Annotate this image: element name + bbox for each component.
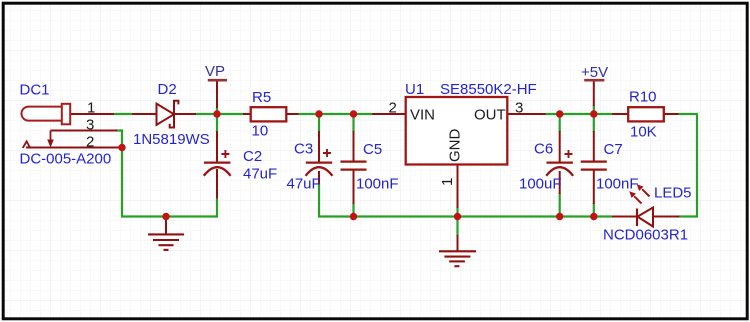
node VP <box>213 110 220 117</box>
LED5 emission arrows <box>629 184 649 203</box>
resistor R10 <box>628 107 664 121</box>
svg-text:D2: D2 <box>158 81 177 98</box>
svg-text:C6: C6 <box>534 141 553 158</box>
LED5 cathode pin <box>612 216 637 218</box>
+5V stem <box>593 81 595 107</box>
wire VP node green <box>216 107 218 132</box>
wire C7 top / +5V node <box>593 105 595 132</box>
node C3 top <box>315 110 322 117</box>
connector DC1 barrel <box>22 107 64 121</box>
svg-text:C5: C5 <box>363 141 382 158</box>
capacitor C6 plates <box>546 163 573 176</box>
LED5 cathode bar <box>636 209 638 227</box>
C7 pins <box>593 131 595 162</box>
wire C5 top <box>352 114 354 132</box>
capacitor C3 plus <box>323 149 331 157</box>
node C6 bottom <box>556 213 563 220</box>
resistor R5 <box>251 107 287 121</box>
wire right vertical <box>679 114 698 217</box>
wire C6 bottom <box>559 193 561 217</box>
ground1 stub <box>165 219 167 234</box>
node DC1 pins 2-3 <box>118 144 125 151</box>
ground2 stub <box>457 235 459 251</box>
capacitor C6 plus <box>565 150 573 158</box>
capacitor C2 plus <box>221 150 229 158</box>
U1 pin 3 <box>507 113 546 115</box>
U1 pin 1 (GND) <box>457 164 459 208</box>
svg-text:47uF: 47uF <box>243 166 277 183</box>
svg-text:VP: VP <box>205 63 225 80</box>
DC1 pin 1 <box>70 113 114 115</box>
wire U1 OUT to R10 (through C6, +5V nodes) <box>545 113 613 115</box>
connector DC1 pin3 arrow <box>47 131 54 148</box>
VP stem <box>216 81 218 109</box>
connector DC1 pin2 caret <box>23 141 30 148</box>
wire C6 top <box>559 114 561 132</box>
svg-text:DC-005-A200: DC-005-A200 <box>20 151 112 168</box>
svg-text:10: 10 <box>252 123 269 140</box>
wire DC pin3 corner <box>116 131 122 146</box>
LED5 triangle <box>638 208 654 227</box>
capacitor C5 plates <box>341 162 367 170</box>
node +5V <box>590 110 597 117</box>
DC1 pin 2 line <box>26 147 119 149</box>
svg-text:100uF: 100uF <box>519 176 562 193</box>
svg-text:LED5: LED5 <box>654 185 692 202</box>
wire D2 cathode to VP node to R5 <box>195 113 244 115</box>
svg-text:C7: C7 <box>604 141 623 158</box>
svg-text:R10: R10 <box>629 89 657 106</box>
wire DC1 pin1 to D2 <box>113 113 133 115</box>
C6 pins <box>559 131 561 162</box>
wire U1 GND to rail <box>456 207 458 214</box>
svg-text:47uF: 47uF <box>287 176 321 193</box>
ground symbol 1 <box>148 234 184 250</box>
capacitor C7 plates <box>581 162 607 170</box>
C5 pins <box>353 131 355 162</box>
node C5 bottom <box>350 213 357 220</box>
LED5 anode pin <box>653 216 679 218</box>
node C5 top <box>350 110 357 117</box>
svg-text:2: 2 <box>389 100 397 117</box>
net +5V bar <box>584 79 604 82</box>
svg-text:+5V: +5V <box>581 64 608 81</box>
svg-text:NCD0603R1: NCD0603R1 <box>603 226 688 243</box>
wire C2 bottom up <box>216 198 218 218</box>
wire ground rail left <box>121 215 217 217</box>
svg-text:OUT: OUT <box>474 107 506 124</box>
svg-text:1: 1 <box>439 178 456 186</box>
wire C5 bottom <box>352 203 354 217</box>
capacitor C2 plates <box>204 163 231 176</box>
node ground rail tap <box>162 213 169 220</box>
svg-text:C3: C3 <box>294 141 313 158</box>
svg-text:1: 1 <box>87 99 95 116</box>
wire ground rail right <box>319 215 613 217</box>
svg-text:10K: 10K <box>630 124 657 141</box>
svg-text:GND: GND <box>447 129 464 163</box>
node C6 top <box>556 110 563 117</box>
wire rail to ground2 <box>456 219 458 236</box>
IC U1 body <box>406 97 508 165</box>
svg-text:DC1: DC1 <box>20 81 50 98</box>
R10 pins <box>612 113 629 115</box>
svg-text:SE8550K2-HF: SE8550K2-HF <box>440 81 537 98</box>
wire C3 top <box>318 114 320 132</box>
C3 pins <box>318 131 320 162</box>
svg-text:3: 3 <box>515 100 523 117</box>
svg-text:1N5819WS: 1N5819WS <box>133 131 210 148</box>
ground symbol 2 <box>439 251 476 266</box>
R5 pins <box>243 113 251 115</box>
svg-text:U1: U1 <box>405 81 424 98</box>
capacitor C3 plates <box>306 163 333 176</box>
wire C3 bottom <box>318 183 320 218</box>
svg-text:100nF: 100nF <box>596 176 639 193</box>
node U1 GND <box>454 213 461 220</box>
wire R5 to U1 VIN (through C3, C5 nodes) <box>298 113 372 115</box>
diode D2 triangle <box>157 104 175 125</box>
connector DC1 tip <box>62 104 70 125</box>
svg-text:3: 3 <box>86 117 94 134</box>
svg-text:C2: C2 <box>243 148 262 165</box>
DC1 pin 3 line <box>51 130 118 132</box>
U1 pin 2 <box>372 113 406 115</box>
svg-text:VIN: VIN <box>410 107 435 124</box>
svg-text:2: 2 <box>86 134 94 151</box>
wire R10 to right corner <box>678 113 698 115</box>
D2 cathode pin <box>174 113 196 115</box>
svg-text:100nF: 100nF <box>356 176 399 193</box>
svg-text:R5: R5 <box>252 89 271 106</box>
wire DC1 node down <box>121 150 123 217</box>
wire to D2 anode <box>132 113 157 115</box>
net VP bar <box>208 79 227 82</box>
diode D2 schottky bar <box>170 101 179 128</box>
wire C7 bottom <box>593 203 595 217</box>
node C7 bottom <box>590 213 597 220</box>
C2 pins <box>216 131 218 162</box>
